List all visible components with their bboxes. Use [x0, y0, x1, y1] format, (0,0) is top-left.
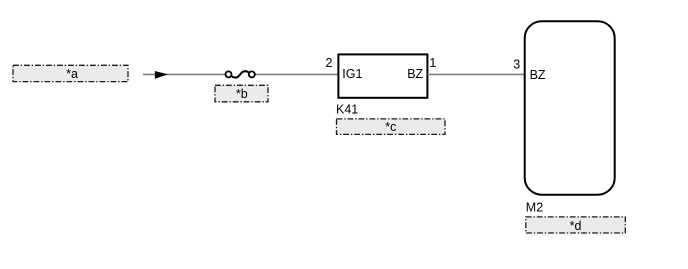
label box *c	[337, 119, 446, 134]
svg-text:*b: *b	[236, 87, 248, 101]
label box *b	[215, 85, 268, 102]
svg-text:M2: M2	[526, 200, 543, 214]
svg-text:*c: *c	[385, 120, 396, 134]
fuse *b (two terminals + wave)	[226, 71, 255, 77]
wire: fuse to relay K41 pin 2	[252, 73, 338, 75]
svg-text:IG1: IG1	[342, 67, 362, 81]
svg-text:3: 3	[513, 58, 520, 72]
svg-text:2: 2	[326, 56, 333, 70]
component M2 (rounded box)	[525, 21, 615, 195]
svg-text:K41: K41	[336, 102, 358, 116]
svg-text:BZ: BZ	[407, 67, 423, 81]
svg-text:BZ: BZ	[530, 68, 546, 82]
relay K41 box	[338, 54, 427, 97]
label box *a	[13, 65, 128, 81]
wire: relay K41 pin 1 to M2 pin 3	[427, 73, 524, 75]
flow arrow	[155, 71, 168, 79]
svg-text:1: 1	[429, 56, 436, 70]
wire: arrow feed to fuse	[143, 73, 229, 75]
label box *d	[526, 217, 626, 233]
svg-text:*d: *d	[570, 219, 582, 233]
svg-text:*a: *a	[66, 67, 78, 81]
